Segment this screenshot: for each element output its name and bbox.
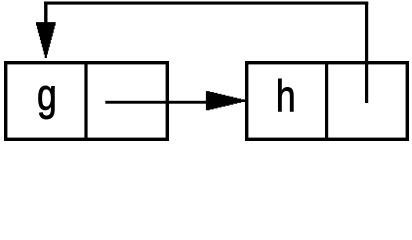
svg-text:g: g (37, 70, 57, 120)
wire g.next to h (horizontal) (105, 101, 207, 104)
arrowhead to g (36, 22, 56, 58)
node h divider (325, 61, 328, 141)
wire h.next up from cell (365, 2, 368, 104)
svg-text:h: h (276, 72, 296, 122)
node h box (247, 63, 408, 140)
wire top horizontal (44, 2, 368, 5)
node g divider (84, 61, 87, 141)
linked-list diagram (0, 0, 412, 149)
wire down to node g (44, 2, 47, 24)
arrowhead to h (206, 91, 245, 110)
node g box (6, 63, 168, 140)
